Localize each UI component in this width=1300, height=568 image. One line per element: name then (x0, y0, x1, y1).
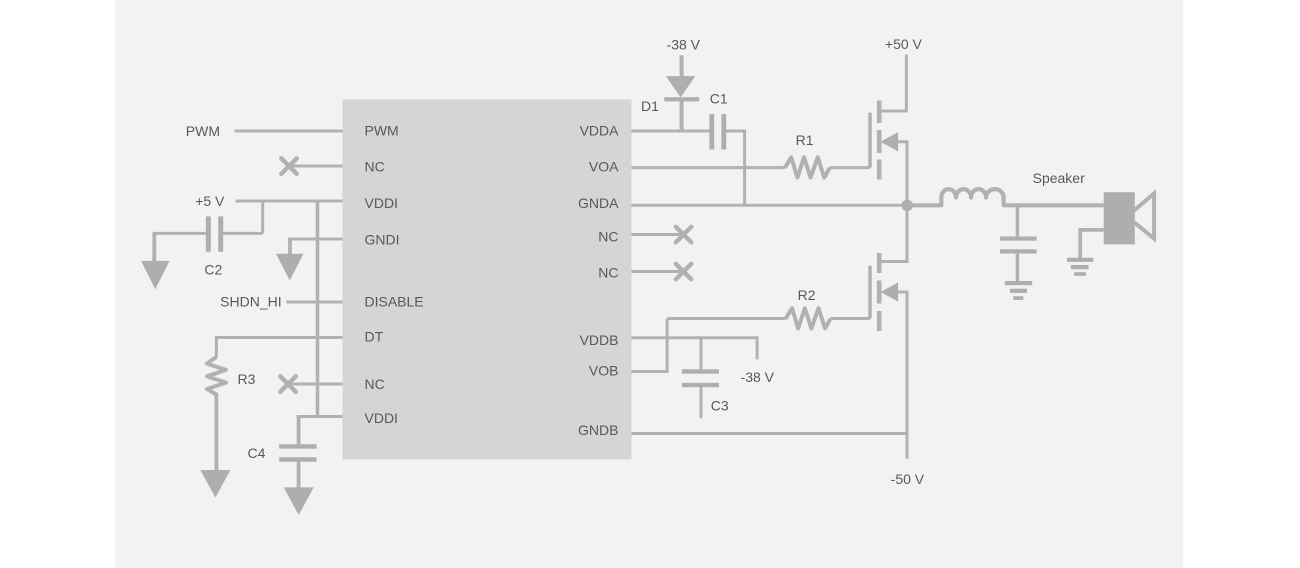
svg-text:PWM: PWM (365, 123, 399, 139)
svg-text:NC: NC (598, 265, 618, 281)
svg-text:VOB: VOB (589, 363, 619, 379)
svg-text:SHDN_HI: SHDN_HI (220, 294, 281, 310)
svg-text:R3: R3 (238, 371, 256, 387)
svg-text:+5 V: +5 V (195, 193, 225, 209)
svg-text:GNDI: GNDI (365, 232, 400, 248)
svg-text:GNDB: GNDB (578, 422, 618, 438)
svg-text:R2: R2 (798, 287, 816, 303)
svg-text:VDDB: VDDB (580, 332, 619, 348)
svg-text:-50 V: -50 V (891, 471, 925, 487)
svg-text:VOA: VOA (589, 159, 619, 175)
svg-text:-38 V: -38 V (667, 37, 701, 53)
svg-text:C1: C1 (710, 91, 728, 107)
svg-text:R1: R1 (796, 132, 814, 148)
svg-text:DT: DT (365, 329, 384, 345)
svg-text:NC: NC (365, 376, 385, 392)
svg-text:NC: NC (365, 159, 385, 175)
svg-text:PWM: PWM (186, 123, 220, 139)
svg-text:NC: NC (598, 229, 618, 245)
svg-text:C2: C2 (204, 262, 222, 278)
svg-text:VDDI: VDDI (365, 195, 398, 211)
svg-text:DISABLE: DISABLE (365, 294, 424, 310)
svg-text:VDDI: VDDI (365, 410, 398, 426)
svg-text:C4: C4 (248, 445, 266, 461)
svg-text:Speaker: Speaker (1033, 170, 1085, 186)
svg-text:GNDA: GNDA (578, 195, 619, 211)
svg-text:D1: D1 (641, 98, 659, 114)
svg-text:C3: C3 (711, 398, 729, 414)
svg-text:+50 V: +50 V (885, 36, 923, 52)
svg-text:VDDA: VDDA (580, 123, 620, 139)
svg-text:-38 V: -38 V (741, 369, 775, 385)
